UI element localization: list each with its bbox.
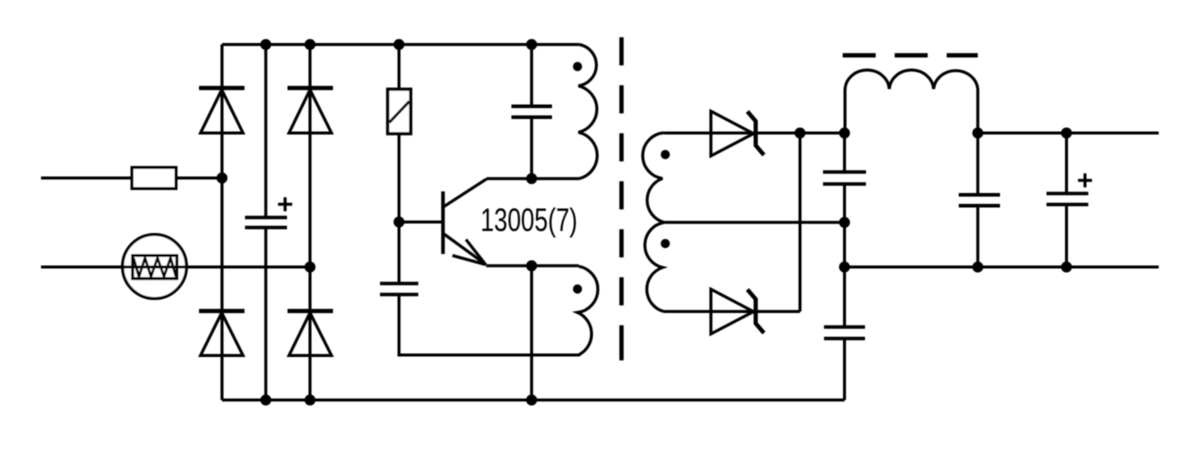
T1 core tail dash [619,353,623,360]
node dot top rail snubber [526,39,537,50]
wire emitter node [486,264,579,267]
node dot bottom rail emitter [526,395,537,406]
wire bridge right leg [309,45,312,401]
node dot base junction [394,217,405,228]
resistor R1 body [388,89,411,134]
capacitor C4 [823,172,866,184]
wire C7 column upper [1065,133,1068,194]
wire C3 to winding bottom [399,295,580,356]
node dot center tap [839,217,850,228]
svg-text:13005(7): 13005(7) [481,202,578,238]
transformer T1 core [619,37,623,360]
W1 phase dot [573,62,582,71]
wire C6 column upper [976,133,979,195]
resistor R1 (startup, fusible) upper wire [398,45,401,90]
node dot bottom rail bridge right [305,395,316,406]
diode D2 [288,88,334,133]
wire bulk cap branch lower [264,228,267,401]
wire filter column upper [843,133,846,172]
C7 plus sign [1078,173,1092,187]
diode D6 [711,289,764,334]
W3 phase dot [661,150,670,159]
wire secondary bottom [664,310,800,313]
wire snubber upper [530,45,533,107]
transformer T1 primary winding W1 [578,45,597,179]
C1 plus sign [278,197,292,211]
node dot collector [526,173,537,184]
W2 phase dot [573,284,582,293]
transformer T1 primary winding W2 [578,266,598,355]
resistor R1 diagonal [389,102,409,123]
fuse F1 [132,168,176,189]
node dot C6 bottom [972,262,983,273]
node dot top rail R1 [394,39,405,50]
wire emitter to bottom rail [530,266,533,400]
wire input line N (bottom) [41,266,310,269]
diode D4 [288,311,334,356]
wire top rail [222,43,579,46]
wire bridge left leg [221,45,224,401]
node dot emitter [526,260,537,271]
wire R1 to base node [398,134,401,284]
node dot top rail C1 [260,39,271,50]
wire bottom rail [222,399,845,402]
wire output top rail [978,132,1159,135]
capacitor C3 (base) [380,284,418,295]
transistor Q1 emitter arrow [453,240,486,265]
wire C6 column lower [976,206,979,267]
wire filter column lower [843,339,846,401]
diode D1 [199,88,245,133]
wire input line L (top) [41,177,220,180]
wire secondary top [664,132,845,135]
transformer T1 secondary winding W3 [643,133,664,223]
transistor Q1 collector [444,179,487,207]
W4 phase dot [661,239,670,248]
inductor L1 [845,70,978,133]
L1 core [843,53,978,57]
wire filter column middle [843,184,846,327]
capacitor C5 (Y-cap) [824,327,865,339]
transistor Q1 base bar [441,191,445,254]
wire through thermistor [123,266,187,269]
node dot D6 riser top [795,128,806,139]
transformer T1 secondary winding W4 [645,223,664,312]
wire base [399,221,442,224]
capacitor C7 (output electrolytic) [1047,194,1089,205]
capacitor C1 (bulk electrolytic) [245,218,287,228]
wire center tap [664,221,845,224]
node dot C7 bottom [1061,262,1072,273]
node dot bottom rail C1 [260,395,271,406]
wire bulk cap branch upper [264,45,267,218]
wire output bottom rail [845,266,1159,269]
capacitor C6 [959,195,1000,206]
node dot top rail bridge right [305,39,316,50]
node dot thermistor junction [305,262,316,273]
capacitor C2 (snubber) [511,106,552,117]
wire C7 column lower [1065,205,1068,268]
thermistor RT1 circle [123,235,187,299]
node dot L1 out [972,128,983,139]
wire collector node [487,177,580,180]
transistor Q1 emitter [444,234,486,265]
thermistor RT1 zigzag [134,258,177,277]
node dot C7 top [1061,128,1072,139]
diode D3 [199,311,245,356]
thermistor RT1 body [133,256,177,279]
node dot C4 top [839,128,850,139]
node dot secondary ground [839,262,850,273]
diode D5 [711,111,764,156]
wire D6 cathode riser [799,133,802,312]
node dot fuse junction [217,173,228,184]
wire snubber lower [530,117,533,178]
